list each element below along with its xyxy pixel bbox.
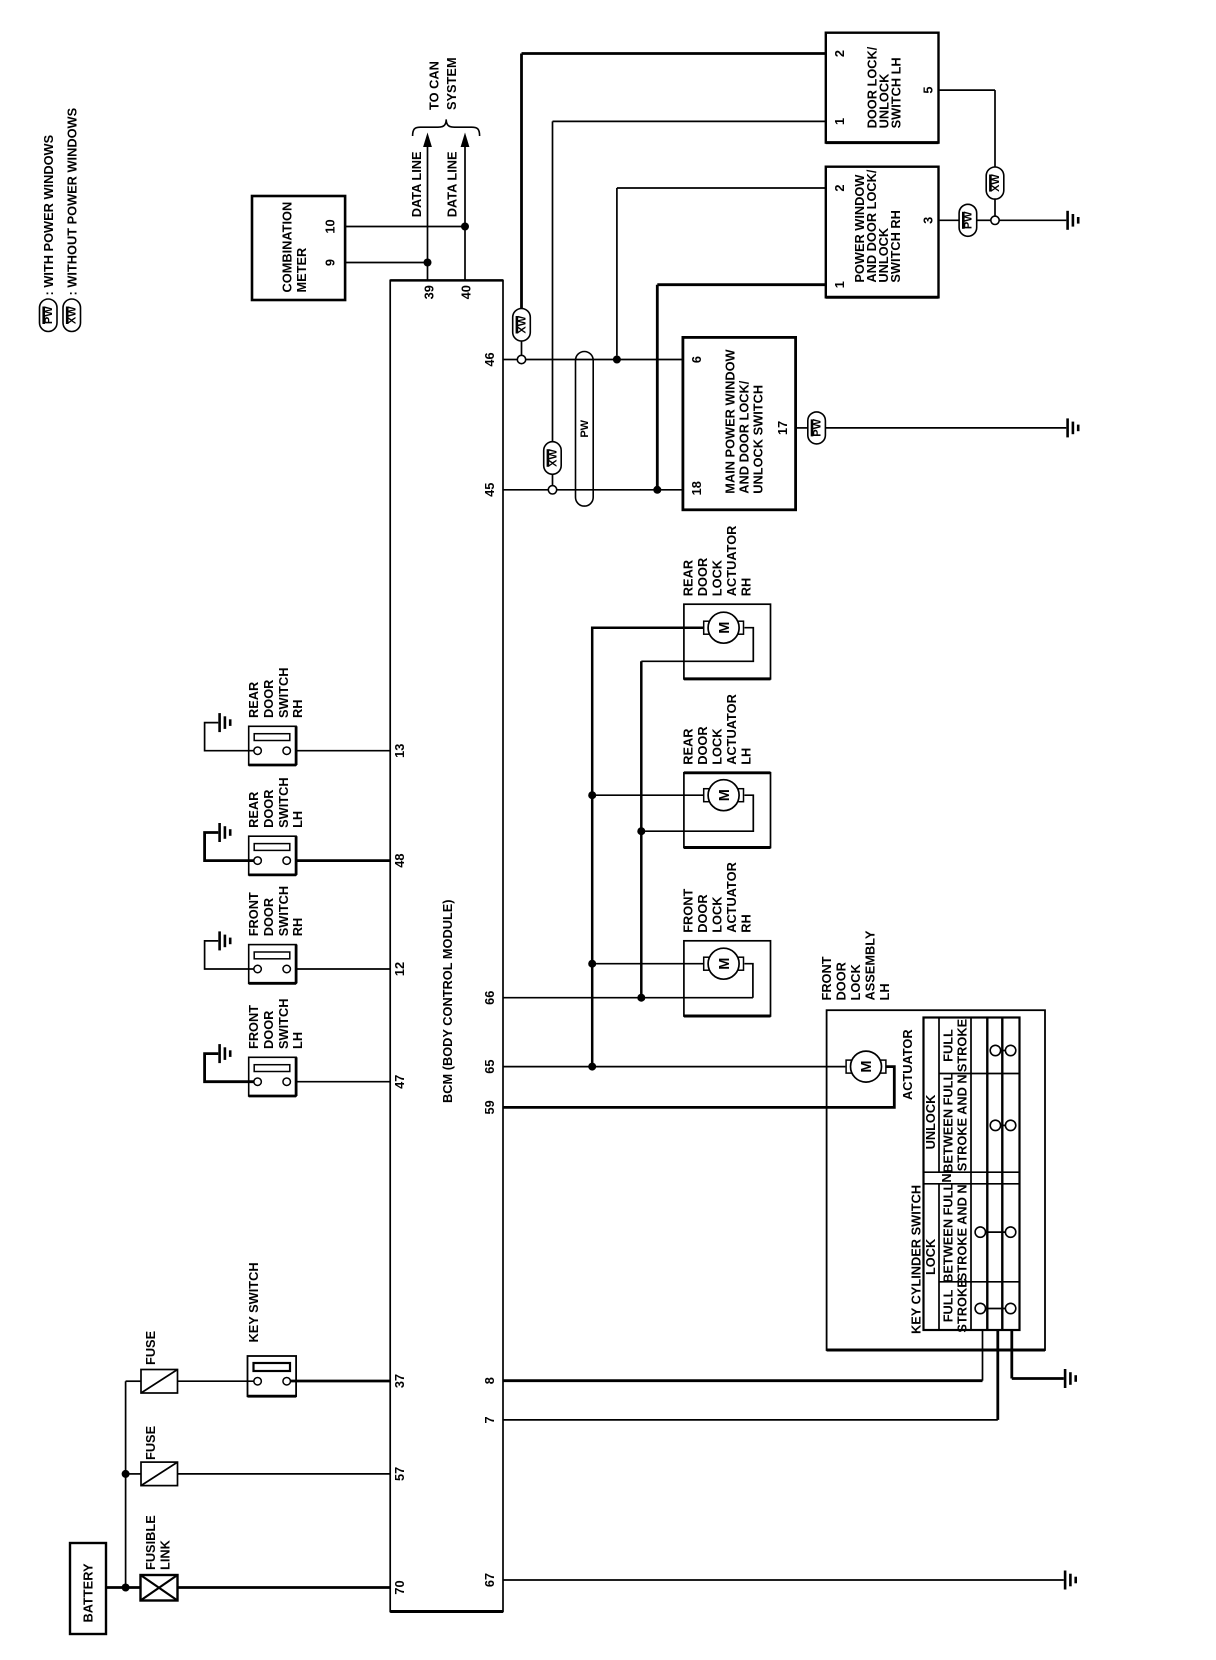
svg-text:: WITH POWER WINDOWS: : WITH POWER WINDOWS <box>41 134 56 295</box>
svg-text:XW: XW <box>516 315 528 333</box>
rear door lock actuator RH box <box>681 526 771 679</box>
svg-text:FUSIBLE: FUSIBLE <box>143 1515 158 1570</box>
label N (table) <box>939 1173 954 1182</box>
svg-text:40: 40 <box>459 285 474 299</box>
svg-text:REAR: REAR <box>246 682 261 718</box>
label DATA LINE (right) <box>445 151 460 217</box>
wire fuse to key switch <box>178 1380 254 1382</box>
svg-text:57: 57 <box>392 1467 407 1481</box>
wire key switch to BCM pin 37 <box>291 1380 391 1383</box>
svg-text:STROKE: STROKE <box>955 1018 970 1072</box>
svg-text:SWITCH: SWITCH <box>276 886 291 936</box>
fusible link <box>141 1515 178 1601</box>
wire BCM pin 66 to front actuator RH <box>503 997 753 999</box>
pin 1 (power window switch RH) <box>832 281 847 288</box>
label BETWEEN FULL STROKE AND N (lock) <box>941 1183 970 1283</box>
svg-text:M: M <box>717 622 733 634</box>
wire pin 45 connector to MAIN switch pin 18 <box>557 489 683 491</box>
pin 70 (BCM) <box>392 1580 407 1594</box>
svg-text:STROKE: STROKE <box>955 1279 970 1333</box>
contact circles (unlock full stroke) <box>990 1045 1016 1055</box>
svg-text:LINK: LINK <box>158 1539 173 1570</box>
connector symbol PW (pin 17 ground wire) <box>808 412 826 444</box>
wire POWER WINDOW switch RH pin 1 to pin 45 wire <box>657 285 826 490</box>
power window and door lock/unlock switch RH box <box>826 167 939 298</box>
svg-text:DOOR: DOOR <box>834 962 849 1000</box>
connector circle on pin 45 wire <box>548 486 556 494</box>
pin 12 (BCM) <box>392 962 407 976</box>
label LOCK (table header) <box>923 1238 938 1275</box>
svg-text:KEY SWITCH: KEY SWITCH <box>246 1262 261 1342</box>
svg-text:BETWEEN FULL: BETWEEN FULL <box>941 1073 956 1173</box>
combination meter box <box>252 196 345 300</box>
svg-text:LH: LH <box>877 983 892 1000</box>
fuse (key switch) <box>126 1330 178 1393</box>
wire PW connector to circle <box>977 219 991 221</box>
ground (rear door switch LH) <box>220 823 231 842</box>
svg-text:PW: PW <box>963 211 975 229</box>
pin 18 (main power window switch) <box>689 481 704 495</box>
svg-text:SWITCH LH: SWITCH LH <box>889 57 904 128</box>
svg-text:67: 67 <box>482 1573 497 1587</box>
svg-text:DATA LINE: DATA LINE <box>445 151 460 217</box>
ground (key cylinder switch) <box>1065 1369 1076 1388</box>
wire front door switch RH to BCM pin 12 <box>296 968 390 970</box>
label KEY CYLINDER SWITCH <box>908 1185 923 1334</box>
svg-text:12: 12 <box>392 962 407 976</box>
label TO CAN SYSTEM <box>427 57 460 110</box>
wire junction to POWER WINDOW switch RH pin 2 <box>617 188 826 356</box>
wire circle to ground <box>999 219 1066 221</box>
svg-text:6: 6 <box>689 356 704 363</box>
svg-text:FRONT: FRONT <box>246 892 261 936</box>
svg-text:45: 45 <box>482 483 497 497</box>
wire battery feed riser <box>125 1381 127 1587</box>
svg-text:PW: PW <box>811 418 823 436</box>
wire combination meter pin 9 to CAN line <box>345 262 427 264</box>
pin 13 (BCM) <box>392 744 407 758</box>
svg-text:LH: LH <box>290 1032 305 1049</box>
pin 17 (main power window switch) <box>775 421 790 435</box>
pin 59 (BCM) <box>482 1100 497 1114</box>
svg-text:SWITCH: SWITCH <box>276 999 291 1049</box>
svg-text:SYSTEM: SYSTEM <box>444 57 459 110</box>
wire rear actuator LH motor right loop <box>641 795 753 831</box>
wire BCM pin 45 to connector circle <box>503 489 548 491</box>
wire bus B (lock actuators return) <box>640 661 643 997</box>
wire key cylinder switch to BCM pin 7 <box>503 1330 998 1420</box>
svg-text:LOCK: LOCK <box>710 559 725 596</box>
pin 7 (BCM) <box>482 1416 497 1423</box>
svg-text:XW: XW <box>547 449 559 467</box>
svg-text:47: 47 <box>392 1075 407 1089</box>
junction dot (bus B end on pin 66 wire) <box>637 994 645 1002</box>
table column line (header/labels) <box>938 1018 940 1331</box>
BCM (Body Control Module) box <box>390 280 503 1611</box>
wire rear actuator RH motor right loop <box>641 628 753 662</box>
connector circle (ground join) <box>991 216 999 224</box>
svg-text:FRONT: FRONT <box>819 956 834 1000</box>
rear door switch RH <box>205 668 305 765</box>
svg-text:FUSE: FUSE <box>143 1425 158 1460</box>
svg-text:UNLOCK SWITCH: UNLOCK SWITCH <box>751 385 766 494</box>
svg-text:BCM (BODY CONTROL MODULE): BCM (BODY CONTROL MODULE) <box>440 899 455 1103</box>
junction dot on CAN line (pin 10) <box>461 223 469 231</box>
svg-text:SWITCH RH: SWITCH RH <box>888 210 903 283</box>
svg-text:REAR: REAR <box>681 729 696 765</box>
svg-text:65: 65 <box>482 1059 497 1073</box>
svg-text:M: M <box>717 958 733 970</box>
svg-text:RH: RH <box>739 578 754 596</box>
table column line (labels/contacts) <box>970 1018 972 1331</box>
svg-text:DOOR: DOOR <box>695 894 710 932</box>
svg-text:10: 10 <box>323 219 338 233</box>
table contact bus line 1 <box>986 1018 988 1331</box>
svg-text:DOOR: DOOR <box>261 898 276 936</box>
svg-text:LOCK: LOCK <box>710 728 725 765</box>
svg-text:48: 48 <box>392 853 407 867</box>
front door switch RH <box>205 886 305 983</box>
svg-text:PW: PW <box>579 419 591 437</box>
connector symbol XW (pin 46 branch) <box>513 309 531 342</box>
svg-text:SWITCH: SWITCH <box>276 668 291 718</box>
svg-text:39: 39 <box>422 285 437 299</box>
wire XW drop to DOOR LOCK/UNLOCK SWITCH LH pin 1 <box>553 121 826 485</box>
contact circles (lock between full stroke and N) <box>975 1227 1016 1237</box>
svg-text:9: 9 <box>323 259 338 266</box>
svg-text:LH: LH <box>739 748 754 765</box>
ground (main power window switch) <box>1068 418 1079 437</box>
wire BCM pin 67 to ground <box>503 1579 1064 1581</box>
svg-text:1: 1 <box>832 118 847 125</box>
pin 6 (main power window switch) <box>689 356 704 363</box>
svg-text:LOCK: LOCK <box>848 963 863 1000</box>
pin 3 (power window switch RH) <box>921 217 936 224</box>
pin 47 (BCM) <box>392 1075 407 1089</box>
svg-text:REAR: REAR <box>681 560 696 596</box>
svg-text:LH: LH <box>290 811 305 828</box>
svg-text:5: 5 <box>921 87 936 94</box>
svg-text:PW: PW <box>43 306 55 324</box>
wire BCM pin 40 data line with arrow <box>461 133 470 281</box>
ground (BCM pin 67) <box>1065 1571 1076 1590</box>
svg-text:SWITCH: SWITCH <box>276 777 291 827</box>
svg-text:BETWEEN FULL: BETWEEN FULL <box>941 1183 956 1283</box>
door lock/unlock switch LH box <box>826 33 939 143</box>
svg-text:TO CAN: TO CAN <box>427 61 442 110</box>
legend text WITHOUT POWER WINDOWS <box>64 107 79 295</box>
svg-text:FULL: FULL <box>941 1289 956 1322</box>
label BETWEEN FULL STROKE AND N (unlock) <box>941 1073 970 1173</box>
legend text WITH POWER WINDOWS <box>41 134 56 295</box>
svg-text:FRONT: FRONT <box>246 1005 261 1049</box>
ground (front door switch LH) <box>220 1044 231 1063</box>
brace TO CAN SYSTEM <box>413 119 480 136</box>
main power window and door lock/unlock switch box <box>683 337 796 509</box>
pin 57 (BCM) <box>392 1467 407 1481</box>
label FULL STROKE (unlock) <box>941 1018 970 1072</box>
wire front door switch LH to BCM pin 47 <box>296 1081 390 1083</box>
junction dot on pin 45 wire <box>653 486 661 494</box>
junction dot (fuse branch) <box>122 1470 130 1478</box>
svg-text:STROKE AND N: STROKE AND N <box>955 1074 970 1171</box>
wire battery to fusible link <box>106 1586 141 1589</box>
wire rear actuator LH motor left <box>592 794 704 796</box>
wire bus A (lock actuators feed) <box>592 628 704 1067</box>
svg-text:DATA LINE: DATA LINE <box>409 151 424 217</box>
svg-text:M: M <box>859 1061 875 1073</box>
junction dot on CAN line (pin 9) <box>424 259 432 267</box>
svg-text:8: 8 <box>482 1377 497 1384</box>
table row line (lock between/full) <box>939 1281 1020 1283</box>
table row line (N bottom) <box>924 1183 1020 1185</box>
table row line (N top) <box>924 1171 1020 1173</box>
motor M (front door lock actuator RH) <box>704 948 744 979</box>
pin 48 (BCM) <box>392 853 407 867</box>
front door lock actuator RH box <box>681 862 771 1016</box>
wire BCM pin 65 to front door lock assembly motor <box>503 1066 845 1068</box>
pin 10 (combination meter) <box>323 219 338 233</box>
wire key cylinder switch to BCM pin 8 <box>503 1330 983 1381</box>
svg-text:METER: METER <box>294 248 309 293</box>
table row line (unlock full/between) <box>939 1073 1020 1075</box>
connector symbol XW (door lock switch LH pin 5) <box>986 167 1004 199</box>
table contact bus line 2 <box>1001 1018 1003 1331</box>
pin 37 (BCM) <box>392 1374 407 1388</box>
svg-text:UNLOCK: UNLOCK <box>923 1094 938 1149</box>
svg-text:ACTUATOR: ACTUATOR <box>724 862 739 933</box>
svg-text:13: 13 <box>392 744 407 758</box>
contact circles (unlock between full stroke and N) <box>990 1120 1016 1130</box>
fuse (BCM pin 57) <box>126 1425 178 1485</box>
svg-text:2: 2 <box>832 50 847 57</box>
svg-text:46: 46 <box>482 352 497 366</box>
rear door switch LH <box>205 777 305 874</box>
svg-text:N: N <box>939 1173 954 1182</box>
pin 65 (BCM) <box>482 1059 497 1073</box>
junction dot (battery feed) <box>122 1584 130 1592</box>
connector symbol XW (pin 45 branch) <box>544 442 562 475</box>
pin 8 (BCM) <box>482 1377 497 1384</box>
motor M (rear door lock actuator RH) <box>704 612 744 643</box>
svg-text:XW: XW <box>990 174 1002 192</box>
svg-text:70: 70 <box>392 1580 407 1594</box>
label DATA LINE (left) <box>409 151 424 217</box>
wire rear door switch LH to BCM pin 48 <box>296 859 390 862</box>
svg-text:LOCK: LOCK <box>923 1238 938 1275</box>
svg-text:BATTERY: BATTERY <box>81 1563 96 1622</box>
pin 46 (BCM) <box>482 352 497 366</box>
connector symbol PW (pin 3 ground wire) <box>959 204 977 236</box>
svg-text:18: 18 <box>689 481 704 495</box>
legend symbol PW (with power windows) <box>40 299 58 332</box>
svg-text:ACTUATOR: ACTUATOR <box>900 1029 915 1100</box>
wire combination meter pin 10 to CAN line <box>345 226 465 228</box>
key cylinder switch table frame <box>924 1018 1020 1331</box>
svg-text:1: 1 <box>832 281 847 288</box>
svg-text:17: 17 <box>775 421 790 435</box>
contact circles (lock full stroke) <box>975 1303 1016 1313</box>
wire XW drop to DOOR LOCK/UNLOCK SWITCH LH pin 2 <box>522 54 826 356</box>
svg-text:DOOR: DOOR <box>261 680 276 718</box>
label UNLOCK (table header) <box>923 1094 938 1149</box>
pin 9 (combination meter) <box>323 259 338 266</box>
svg-text:COMBINATION: COMBINATION <box>280 202 295 293</box>
junction dot (bus B / rear LH) <box>637 827 645 835</box>
pin 2 (power window switch RH) <box>832 184 847 191</box>
pin 2 (door lock/unlock switch LH) <box>832 50 847 57</box>
svg-text:FUSE: FUSE <box>143 1330 158 1365</box>
wire PW connector to ground <box>825 427 1066 429</box>
svg-text:66: 66 <box>482 991 497 1005</box>
motor M (front door lock assembly actuator) <box>846 1051 886 1082</box>
battery box <box>70 1543 106 1634</box>
svg-text:7: 7 <box>482 1416 497 1423</box>
pin 39 (BCM) <box>422 285 437 299</box>
svg-text:DOOR: DOOR <box>695 726 710 764</box>
wire front actuator RH motor right drop <box>744 964 753 998</box>
svg-text:DOOR: DOOR <box>261 789 276 827</box>
ground (front door switch RH) <box>220 931 231 950</box>
svg-text:AND DOOR LOCK/: AND DOOR LOCK/ <box>737 380 752 493</box>
svg-text:REAR: REAR <box>246 792 261 828</box>
svg-text:ACTUATOR: ACTUATOR <box>724 526 739 597</box>
svg-text:LOCK: LOCK <box>710 896 725 933</box>
svg-text:DOOR: DOOR <box>695 558 710 596</box>
svg-text:2: 2 <box>832 184 847 191</box>
wire fusible link to BCM pin 70 <box>178 1586 391 1589</box>
svg-text:ASSEMBLY: ASSEMBLY <box>863 930 878 1000</box>
wire rear door switch RH to BCM pin 13 <box>296 750 390 752</box>
wire key cylinder switch to ground <box>1012 1330 1064 1379</box>
junction dot (bus A / rear LH) <box>588 791 596 799</box>
front door switch LH <box>205 999 305 1096</box>
pin 67 (BCM) <box>482 1573 497 1587</box>
svg-text:MAIN POWER WINDOW: MAIN POWER WINDOW <box>723 348 738 493</box>
legend symbol XW (without power windows) <box>63 299 81 332</box>
svg-text:M: M <box>717 789 733 801</box>
label BCM (BODY CONTROL MODULE) <box>440 899 455 1103</box>
svg-text:37: 37 <box>392 1374 407 1388</box>
svg-text:DOOR: DOOR <box>261 1011 276 1049</box>
svg-text:XW: XW <box>67 306 79 324</box>
pin 66 (BCM) <box>482 991 497 1005</box>
svg-text:: WITHOUT POWER WINDOWS: : WITHOUT POWER WINDOWS <box>64 107 79 295</box>
wire pin 46 connector to MAIN switch pin 6 <box>526 359 683 361</box>
front door lock assembly LH box <box>819 930 1045 1350</box>
pin 45 (BCM) <box>482 483 497 497</box>
svg-text:FRONT: FRONT <box>681 889 696 933</box>
label FULL STROKE (lock) <box>941 1279 970 1333</box>
svg-text:KEY CYLINDER SWITCH: KEY CYLINDER SWITCH <box>908 1185 923 1334</box>
wire BCM pin 46 to connector circle <box>503 359 517 361</box>
svg-text:ACTUATOR: ACTUATOR <box>724 694 739 765</box>
pin 5 (door lock/unlock switch LH) <box>921 87 936 94</box>
svg-text:3: 3 <box>921 217 936 224</box>
ground (rear door switch RH) <box>220 713 231 732</box>
connector circle on pin 46 wire <box>517 355 525 363</box>
pin 1 (door lock/unlock switch LH) <box>832 118 847 125</box>
wire BCM pin 59 to assembly motor <box>503 1067 894 1108</box>
label ACTUATOR <box>900 1029 915 1100</box>
connector capsule PW (pins 46/45) <box>576 352 594 507</box>
wire BCM pin 39 data line with arrow <box>423 133 432 281</box>
junction dot (bus A / front RH) <box>588 960 596 968</box>
svg-text:RH: RH <box>290 918 305 936</box>
junction dot on pin 46 wire <box>613 356 621 364</box>
junction dot (bus A end on pin 65 wire) <box>588 1063 596 1071</box>
wire fuse to BCM pin 57 <box>178 1473 391 1475</box>
wire front actuator RH motor left <box>592 963 704 965</box>
svg-text:STROKE AND N: STROKE AND N <box>955 1184 970 1281</box>
svg-text:FULL: FULL <box>941 1029 956 1062</box>
svg-text:RH: RH <box>290 700 305 718</box>
wire door lock switch LH pin 5 to XW connector <box>939 90 996 216</box>
rear door lock actuator LH box <box>681 694 771 847</box>
wire main switch pin 17 to PW connector <box>796 427 808 429</box>
motor M (rear door lock actuator LH) <box>704 780 744 811</box>
key switch <box>246 1262 296 1396</box>
svg-text:RH: RH <box>739 914 754 932</box>
ground (switch RH/LH) <box>1068 211 1079 230</box>
pin 40 (BCM) <box>459 285 474 299</box>
svg-text:59: 59 <box>482 1100 497 1114</box>
wire power window switch RH pin 3 to ground <box>939 219 960 221</box>
